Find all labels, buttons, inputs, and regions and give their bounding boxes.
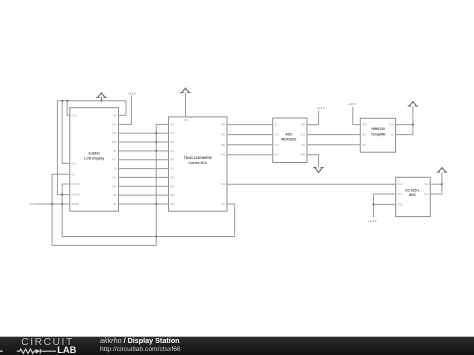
svg-text:TM4C123GH6PM: TM4C123GH6PM: [184, 156, 212, 160]
IC U3 MCP3202 ADC body: [273, 118, 307, 163]
wire +3.3V label stem to LCD pin row1: [119, 96, 132, 125]
IC U2 TM4C123GH6PM MCU body: [169, 117, 228, 211]
node +3.3V rail junction 2: [61, 203, 63, 205]
svg-text:SDA: SDA: [112, 185, 117, 188]
svg-text:PB1: PB1: [170, 186, 175, 188]
wire HIH right pin1 to supply vertical: [396, 124, 413, 126]
svg-text:PB0: PB0: [170, 177, 175, 179]
node top rail junction at VDD arrow: [100, 100, 102, 102]
svg-text:PA5: PA5: [170, 150, 175, 153]
svg-text:PA3: PA3: [170, 132, 175, 135]
wire MCU pin row3: [119, 141, 169, 143]
wire CO right pin1 to supply vertical: [430, 183, 442, 185]
svg-text:Vdd: Vdd: [397, 194, 402, 196]
svg-text:RESET: RESET: [72, 204, 80, 206]
wire MCU pin row4: [119, 150, 169, 152]
wire CO pin3 stub: [374, 203, 396, 205]
svg-text:LAB: LAB: [57, 345, 76, 355]
svg-text:Temp/RH: Temp/RH: [371, 133, 386, 137]
node vertical bus junction row2: [155, 132, 157, 134]
wire MCU to ADC row3: [227, 144, 273, 146]
power arrow VDD right of HIH: [408, 102, 418, 107]
svg-text:CS: CS: [72, 174, 76, 176]
svg-text:Cortex M-4: Cortex M-4: [189, 161, 207, 165]
svg-text:LED: LED: [112, 115, 117, 117]
wire LCD D/C down to bottom bus H1 to MCU right pin: [62, 184, 235, 237]
svg-text:GND: GND: [72, 115, 77, 117]
svg-text:CLK: CLK: [301, 135, 306, 137]
wire ADC CLK to HIH: [307, 134, 360, 136]
svg-text:DO: DO: [302, 145, 306, 147]
svg-text:GND: GND: [389, 125, 394, 127]
power arrow VDD above LCD: [97, 93, 107, 98]
pin labels U1 right: [112, 115, 118, 206]
wire MCU pin row6: [119, 168, 169, 170]
wire ADC DOUT to HIH: [307, 144, 360, 146]
pin labels U2 right: [221, 125, 226, 206]
svg-text:PD0: PD0: [221, 125, 226, 127]
svg-text:ADC: ADC: [285, 133, 293, 137]
svg-text:PD3: PD3: [221, 155, 226, 157]
svg-text:http://circuitlab.com/ctsxf66: http://circuitlab.com/ctsxf66: [100, 346, 181, 353]
wire MCU pin row5: [119, 159, 169, 161]
node vertical bus junction H1: [155, 235, 157, 237]
node vertical bus junction row3: [155, 141, 157, 143]
svg-text:+3.3 V: +3.3 V: [29, 202, 38, 206]
svg-text:PA7: PA7: [170, 168, 175, 171]
wire MCU to ADC row4: [227, 154, 273, 156]
node CO supply junction: [441, 183, 443, 185]
svg-text:HIH6130: HIH6130: [372, 127, 385, 131]
svg-text:VCC: VCC: [72, 163, 77, 165]
footer left edge tick: [0, 350, 3, 351]
svg-text:SCL: SCL: [362, 145, 367, 147]
wire LCD CS loop down and around to MCU pin PA2: [52, 124, 168, 245]
wire LCD GND pin to top rail: [67, 101, 70, 116]
node HIH supply junction: [412, 124, 414, 126]
svg-text:MCP3202: MCP3202: [281, 138, 296, 142]
svg-text:GND: GND: [397, 204, 402, 206]
node vertical bus junction row10: [155, 203, 157, 205]
svg-text:RST: RST: [112, 160, 117, 162]
svg-text:GND: GND: [300, 155, 305, 157]
svg-text:VDD: VDD: [300, 125, 305, 127]
svg-text:PA6: PA6: [170, 159, 175, 162]
logo diode symbol: [35, 349, 40, 354]
svg-text:SDI: SDI: [113, 204, 117, 206]
svg-text:Pwr: Pwr: [425, 183, 429, 186]
wire ADC GND to ground: [307, 155, 319, 168]
svg-text:PA4: PA4: [170, 141, 175, 144]
logo resistor lead: [17, 349, 36, 353]
svg-text:SDA: SDA: [362, 134, 367, 137]
svg-text:CS: CS: [114, 169, 118, 171]
pin labels U3 right: [300, 125, 306, 157]
node junction row9: [61, 194, 63, 196]
svg-text:+3.3 V: +3.3 V: [128, 92, 137, 96]
svg-text:SCK: SCK: [112, 133, 117, 135]
wire +3.3V rail into LCD bottom-left pin: [38, 203, 70, 205]
wire top rail VDD net: [57, 101, 126, 116]
svg-text:ILI9341: ILI9341: [89, 152, 101, 156]
pin labels U5 right: [423, 183, 428, 196]
IC U4 HIH6130 Temp/RH sensor body: [360, 118, 395, 152]
svg-text:UHC: UHC: [409, 193, 417, 197]
power arrow VDD above CO sensor: [437, 168, 447, 173]
wire top rail left drop to LCD pin SDI: [57, 101, 69, 195]
wire MCU pin row7: [119, 176, 169, 178]
svg-text:D/C: D/C: [113, 151, 117, 153]
svg-text:VCC: VCC: [112, 124, 117, 126]
svg-text:CS: CS: [274, 125, 278, 127]
svg-text:PD1: PD1: [221, 135, 226, 137]
IC U5 CO sensor body: [396, 177, 431, 216]
svg-text:PE0: PE0: [221, 184, 226, 186]
svg-text:CH1: CH1: [274, 145, 279, 147]
wire MCU pin row9: [119, 194, 169, 196]
svg-text:DIN: DIN: [274, 155, 278, 157]
svg-text:GND: GND: [423, 194, 428, 196]
wire MCU pin row2: [119, 132, 169, 134]
svg-text:D/C(A4): D/C(A4): [72, 183, 81, 186]
svg-text:PF0: PF0: [221, 204, 226, 206]
svg-text:Dout: Dout: [397, 183, 402, 186]
power arrow VDD above MCU: [181, 88, 191, 93]
wire MCU to ADC row1: [227, 124, 273, 126]
pin labels U4 right: [389, 125, 395, 137]
wire CO Vdd to +3.3V label stem: [374, 194, 396, 217]
node vertical bus junction row4: [155, 150, 157, 152]
svg-text:VDD: VDD: [183, 120, 188, 122]
svg-text:CH0: CH0: [274, 135, 279, 137]
wire MCU pin row10: [119, 203, 169, 205]
wire V62 upper segment to LCD pin VCC: [62, 101, 70, 164]
svg-text:PB3: PB3: [170, 204, 175, 206]
wire MCU to ADC row2: [227, 134, 273, 136]
svg-text:SDI(A5): SDI(A5): [72, 194, 80, 197]
svg-text:+3.3 V: +3.3 V: [348, 102, 357, 106]
wire MCU pin row8: [119, 185, 169, 187]
IC U1 ILI9341 LCD Display body: [70, 108, 119, 212]
svg-text:akkrho / Display Station: akkrho / Display Station: [100, 336, 180, 345]
node top rail junction 1: [61, 100, 63, 102]
wire HIH right pin2 to supply arrow: [396, 106, 413, 134]
svg-text:SDO: SDO: [112, 142, 117, 144]
node top rail junction 2: [66, 100, 68, 102]
ground symbol below ADC: [314, 168, 324, 173]
node CO +3.3V junction: [372, 203, 374, 205]
wire CO right pin2 to supply arrow: [430, 172, 442, 194]
svg-text:PA2: PA2: [170, 123, 175, 126]
wire MCU PE0 long run to CO sensor Dout: [227, 183, 396, 185]
svg-text:PB2: PB2: [170, 195, 175, 197]
svg-text:LCD Display: LCD Display: [84, 156, 104, 160]
wire ADC VDD to +3.3V stem: [307, 111, 319, 125]
svg-text:+3.3 V: +3.3 V: [368, 219, 377, 223]
wire MCU VDD stem: [185, 93, 187, 117]
node +3.3V rail junction 1: [51, 203, 53, 205]
wire HIH VDD stub to +3.3V stem: [353, 107, 361, 125]
svg-text:VDD: VDD: [362, 125, 367, 127]
svg-text:+3.3 V: +3.3 V: [317, 106, 326, 110]
svg-text:PD2: PD2: [221, 145, 226, 147]
svg-text:SCL: SCL: [112, 177, 117, 179]
